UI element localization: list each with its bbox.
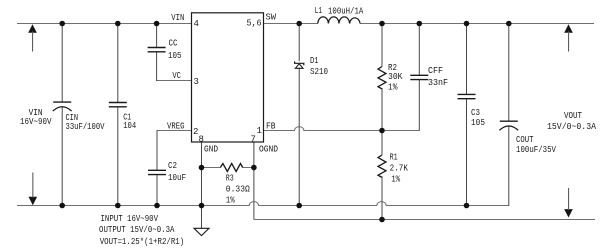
capacitor CFF plates (410, 75, 428, 79)
svg-text:VOUT: VOUT (564, 111, 582, 121)
junction dot rail COUT (506, 21, 512, 27)
wire C3 column lower (466, 99, 468, 206)
wire COUT column lower (508, 126, 510, 206)
wire R1 top lead (381, 131, 383, 156)
resistor R2 zigzag (378, 67, 386, 89)
ground symbol stem (201, 206, 203, 228)
junction dot SW D1 (296, 21, 302, 27)
diode D1 triangle anode up (295, 64, 303, 69)
wire C3 column upper (466, 24, 468, 95)
wire FB line with hop over D1 at x=299 (264, 127, 420, 131)
wire VREG pin horizontal (157, 130, 192, 132)
wire D1 column upper (298, 24, 300, 62)
junction dot bottom rail C3 (464, 203, 470, 209)
svg-text:4: 4 (194, 19, 199, 29)
svg-text:L1: L1 (315, 6, 323, 16)
wire VREG corner down to C2 (156, 130, 158, 170)
svg-text:8: 8 (199, 135, 204, 145)
junction dot rail R2 (379, 21, 385, 27)
wire C1 column upper (117, 24, 119, 103)
svg-text:16V~90V: 16V~90V (20, 117, 52, 127)
junction dot bottom rail CIN (59, 203, 65, 209)
wire CC bottom to VC corner (156, 52, 158, 81)
svg-text:SW: SW (266, 13, 277, 23)
svg-text:VOUT=1.25*(1+R2/R1): VOUT=1.25*(1+R2/R1) (100, 237, 185, 247)
terminal arrow VIN+ up, gray stem (28, 24, 37, 32)
svg-text:10uF: 10uF (168, 173, 186, 183)
wire R2 top lead (381, 24, 383, 67)
svg-text:1: 1 (257, 126, 262, 136)
svg-text:S210: S210 (310, 67, 328, 77)
svg-text:15V/0~0.3A: 15V/0~0.3A (547, 122, 597, 132)
wire R2 bottom lead (381, 88, 383, 131)
svg-text:100uF/35V: 100uF/35V (516, 145, 556, 155)
terminal arrow VOUT+ up, gray stem (564, 24, 573, 32)
resistor R3 zigzag (220, 164, 242, 172)
svg-text:2.7K: 2.7K (390, 164, 409, 174)
junction dot R3 left (199, 165, 205, 171)
wire D1 column lower (298, 68, 300, 206)
terminal arrow VOUT- down, gray stem (564, 209, 573, 217)
svg-text:1%: 1% (391, 175, 400, 185)
svg-text:R1: R1 (390, 152, 398, 162)
svg-text:VREG: VREG (167, 122, 185, 132)
svg-text:VC: VC (172, 71, 181, 81)
svg-text:1%: 1% (226, 195, 235, 205)
svg-text:3: 3 (194, 77, 199, 87)
capacitor C1 plates (109, 103, 127, 107)
svg-text:R3: R3 (226, 173, 234, 183)
resistor R1 zigzag (378, 155, 386, 177)
wire bottom rail with hops at x=253.9 and x=381.5 (17, 202, 509, 206)
wire output rail after L1 (360, 23, 594, 25)
wire lower OGND return line (254, 219, 595, 221)
wire C1 column lower (117, 107, 119, 206)
svg-text:30K: 30K (388, 72, 403, 82)
capacitor CIN polarized bottom arc (53, 107, 72, 111)
wire VC pin horizontal (156, 80, 191, 82)
svg-text:OGND: OGND (259, 145, 278, 155)
junction dot FB R2 R1 (379, 128, 385, 134)
terminal arrow VIN- down, gray stem (29, 197, 38, 205)
svg-text:7: 7 (251, 135, 256, 145)
junction dot bottom rail D1 (296, 203, 302, 209)
wire CC column from rail (156, 24, 158, 48)
wire CIN column upper (61, 24, 63, 102)
junction dot bottom rail GND (199, 203, 205, 209)
capacitor CC plates (148, 48, 166, 52)
junction dot R3 right (251, 165, 257, 171)
capacitor COUT polarized bottom arc (499, 126, 518, 130)
wire top rail left segment (17, 23, 192, 25)
svg-text:INPUT 16V~90V: INPUT 16V~90V (101, 214, 159, 224)
svg-text:COUT: COUT (516, 135, 534, 145)
junction dot rail C3 (464, 21, 470, 27)
junction dot bottom rail C1 (115, 203, 121, 209)
svg-text:105: 105 (471, 118, 485, 128)
capacitor C3 plates (458, 94, 476, 98)
wire SW rail from IC to L1 (264, 23, 318, 25)
wire R3 left lead (202, 167, 221, 169)
svg-text:FB: FB (266, 122, 276, 132)
svg-text:33nF: 33nF (428, 78, 448, 88)
junction dot bottom rail C2 (154, 203, 160, 209)
capacitor CIN top plate (53, 101, 71, 103)
wire OGND pin 7 column crossing bottom rail (253, 142, 255, 220)
svg-text:5,6: 5,6 (247, 19, 262, 29)
capacitor C2 plates (148, 170, 166, 174)
svg-text:VIN: VIN (171, 13, 184, 23)
junction dot top rail C1 (115, 21, 121, 27)
wire CIN column lower (61, 106, 63, 206)
wire CFF column lower (418, 80, 420, 131)
capacitor COUT top plate (500, 120, 518, 122)
wire C2 column lower (156, 175, 158, 206)
svg-text:CFF: CFF (428, 66, 443, 76)
svg-text:GND: GND (204, 145, 218, 155)
wire COUT column upper (508, 24, 510, 121)
svg-text:104: 104 (123, 121, 136, 131)
junction dot lower line R1 (379, 217, 385, 223)
svg-text:D1: D1 (310, 56, 319, 66)
svg-text:CC: CC (169, 39, 178, 49)
inductor L1 humps (318, 17, 360, 24)
svg-text:100uH/1A: 100uH/1A (328, 7, 364, 17)
wire R1 bottom lead crossing bottom rail (381, 176, 383, 219)
junction dot rail CFF (417, 21, 423, 27)
wire R3 right lead (242, 167, 254, 169)
ground symbol triangle (194, 228, 209, 235)
wire GND pin 8 column (201, 142, 203, 206)
diode D1 schottky cathode bar (295, 61, 304, 65)
svg-text:C3: C3 (471, 108, 480, 118)
svg-text:0.33Ω: 0.33Ω (226, 184, 251, 194)
svg-text:OUTPUT 15V/0~0.3A: OUTPUT 15V/0~0.3A (99, 225, 175, 235)
svg-text:C2: C2 (168, 161, 177, 171)
junction dot top rail CC (154, 21, 160, 27)
junction dot top rail CIN (59, 21, 65, 27)
svg-text:105: 105 (168, 51, 182, 61)
wire CFF column upper (418, 24, 420, 76)
op-amp regulator IC U1 box (192, 13, 264, 142)
svg-text:1%: 1% (388, 83, 398, 93)
svg-text:33uF/100V: 33uF/100V (66, 122, 105, 132)
